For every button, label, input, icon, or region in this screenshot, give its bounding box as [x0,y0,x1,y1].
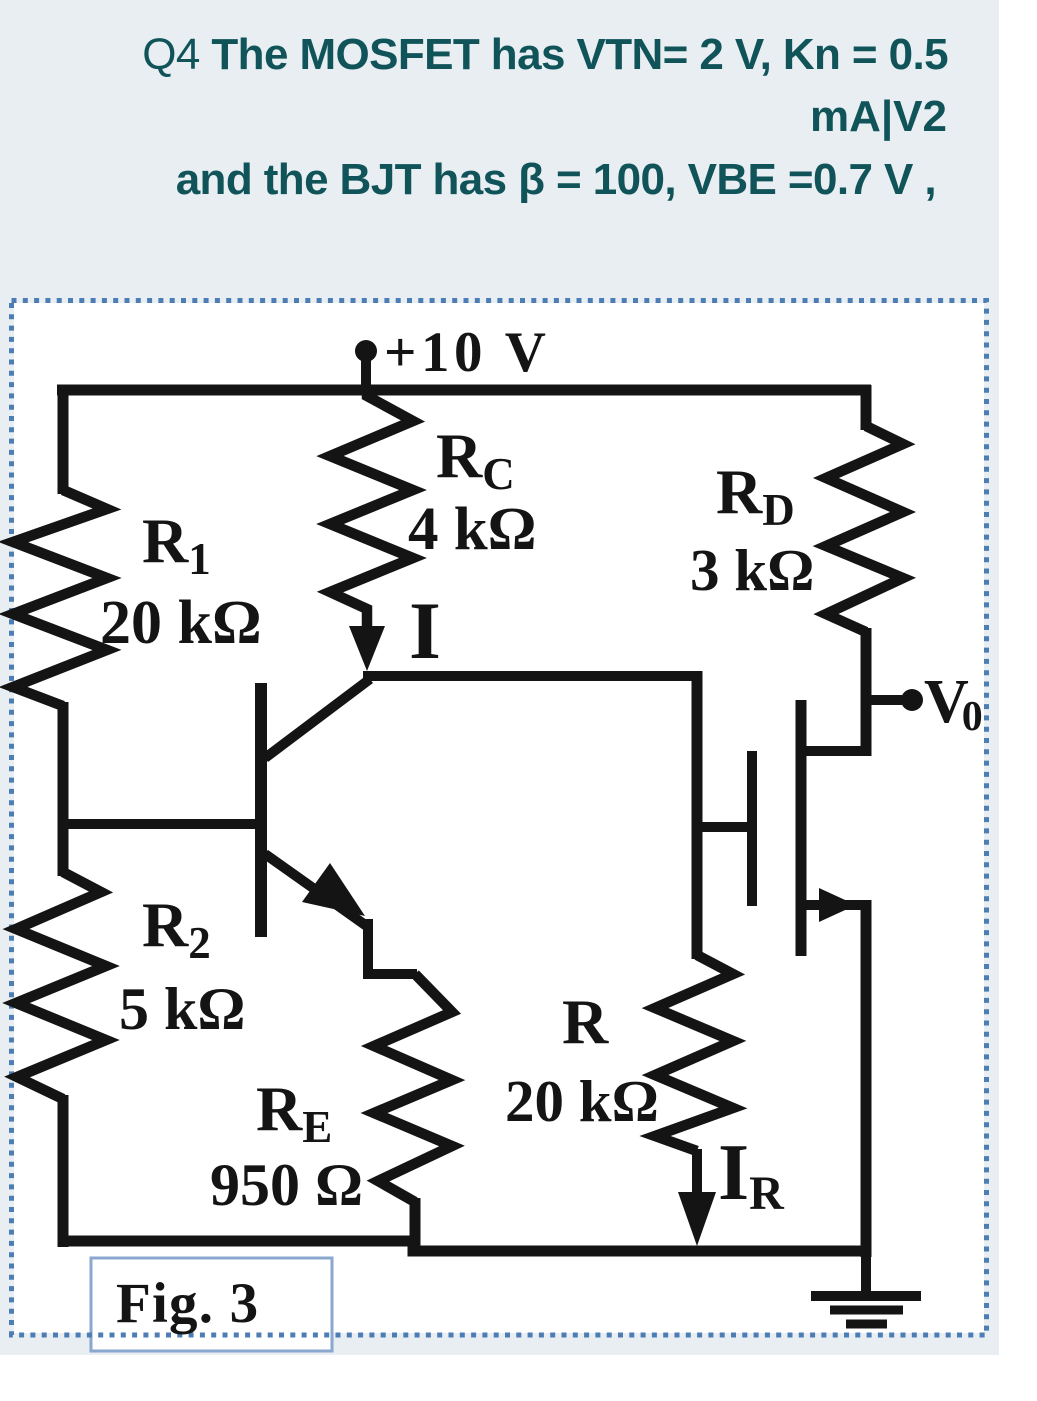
transistor Q1 base bar [255,683,267,937]
header line 2 [810,95,947,139]
current arrow IR stem [692,1149,702,1198]
svg-text:5 kΩ: 5 kΩ [119,976,245,1042]
wire top rail [57,385,871,396]
svg-text:3 kΩ: 3 kΩ [690,537,814,603]
mosfet M1 source wire [796,900,866,910]
svg-text:Fig. 3: Fig. 3 [116,1272,259,1335]
panel white interior [14,303,984,1333]
dashed panel border [12,301,987,1336]
wire bottom rail [58,1241,866,1251]
wire collector wire [363,671,698,681]
node +10V terminal dot [355,340,377,362]
resistor R2 [16,872,106,1099]
resistor RD stub [861,385,872,430]
resistor R1 [13,490,107,706]
svg-text:+10 V: +10 V [384,321,550,384]
wire left vertical R2 to bottom rail [58,1095,69,1247]
mosfet M1 channel bar [796,700,807,956]
wire RE to bottom rail [410,1198,421,1254]
wire gate wire [697,822,749,832]
wire output Vo stub [866,695,902,705]
resistor R [655,955,733,1151]
resistor RC [330,392,413,632]
wire emitter elbow to RE [368,919,417,974]
current arrow IR head [678,1192,716,1246]
header line 3 [176,158,936,202]
svg-text:R: R [562,986,609,1057]
node Vo output dot [901,689,923,711]
svg-text:20 kΩ: 20 kΩ [100,589,262,657]
wire base wire [58,819,262,829]
mosfet M1 gate bar [747,751,757,906]
wire left vertical R1 to R2 [58,702,69,876]
node +10V supply dot and stub [361,351,371,395]
transistor Q1 emitter arrowhead [302,863,365,916]
transistor Q1 collector diagonal [265,679,370,758]
svg-text:4 kΩ: 4 kΩ [408,496,537,563]
transistor Q1 emitter diagonal [265,854,368,927]
mosfet M1 source arrowhead [819,888,856,922]
header line 1 [142,33,948,77]
current arrow I head [349,626,385,671]
Fig. 3 label box [91,1258,332,1351]
mosfet M1 drain wire [796,746,866,756]
wire left vertical top rail to R1 [58,385,69,494]
wire right mid vertical to R and gate [692,671,703,959]
svg-text:I: I [409,585,441,676]
wire RD to drain [861,628,872,756]
resistor RD [826,426,903,632]
svg-text:950 Ω: 950 Ω [210,1152,363,1218]
ground symbol [811,1246,921,1324]
svg-text:20 kΩ: 20 kΩ [505,1068,659,1134]
wire source vertical to ground [861,900,872,1257]
resistor RE [374,974,452,1202]
